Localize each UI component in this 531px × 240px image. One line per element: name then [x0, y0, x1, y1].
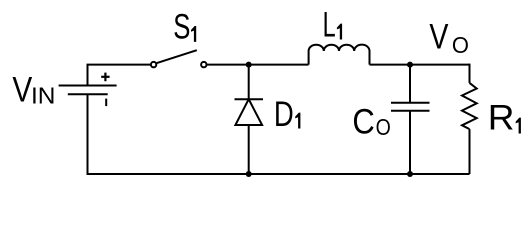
- wire: battery negative down to bottom-left corner: [87, 94, 89, 174]
- resistor R1 (zigzag): [462, 83, 477, 129]
- node: diode top junction: [246, 62, 252, 68]
- label L1: [323, 6, 343, 45]
- label S1: [173, 7, 196, 47]
- diode D1 (cathode bar and triangle, pointing up): [235, 99, 264, 125]
- wire: capacitor down to bottom rail: [409, 111, 411, 174]
- node: diode bottom junction: [246, 171, 252, 177]
- label VO: [429, 17, 469, 59]
- svg-text:IN: IN: [31, 83, 55, 109]
- wire: bottom rail: [87, 173, 470, 175]
- svg-text:O: O: [452, 33, 469, 59]
- voltage source VIN (battery plates): [59, 86, 117, 95]
- VIN minus terminal mark: [105, 99, 107, 107]
- wire: battery positive up and right to switch: [88, 65, 151, 86]
- switch S1 right terminal: [201, 62, 206, 67]
- wire: diode anode down to bottom rail: [248, 125, 250, 174]
- svg-text:D: D: [274, 95, 294, 134]
- switch S1 left terminal: [151, 62, 156, 67]
- wire: resistor down to bottom-right corner: [469, 129, 471, 174]
- svg-text:V: V: [12, 70, 32, 109]
- wire: top-right corner down to resistor: [469, 64, 471, 83]
- svg-text:S: S: [173, 7, 190, 47]
- capacitor CO (parallel plates): [391, 103, 430, 111]
- inductor L1: [309, 45, 370, 65]
- svg-text:R: R: [488, 97, 515, 137]
- label VIN: [12, 70, 55, 109]
- wire: VO junction down to capacitor: [409, 65, 411, 103]
- label CO: [352, 103, 390, 142]
- label R1: [488, 97, 521, 137]
- label D1: [274, 95, 301, 134]
- wire: inductor to top-right corner: [370, 64, 470, 66]
- node: capacitor bottom junction: [407, 171, 413, 177]
- VIN plus terminal mark: [101, 73, 109, 82]
- svg-text:L: L: [323, 6, 336, 45]
- svg-text:O: O: [376, 114, 391, 140]
- wire: switch to inductor (top rail): [207, 64, 309, 66]
- node: output junction VO: [407, 62, 413, 68]
- svg-text:C: C: [352, 103, 374, 142]
- switch S1 blade (open): [156, 50, 197, 63]
- wire: top junction down to diode: [248, 65, 250, 100]
- svg-text:V: V: [429, 17, 449, 56]
